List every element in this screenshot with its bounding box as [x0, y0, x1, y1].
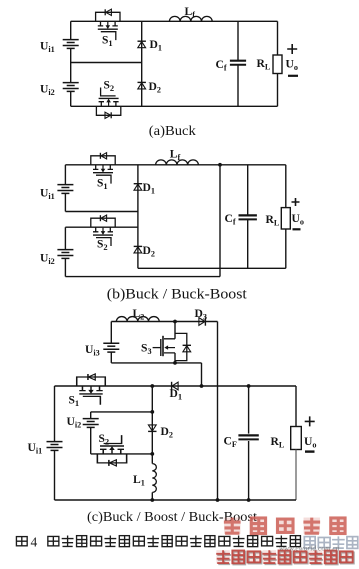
svg-text:(a)Buck: (a)Buck — [149, 124, 196, 139]
svg-text:(b)Buck / Buck-Boost: (b)Buck / Buck-Boost — [107, 286, 247, 302]
svg-text:www.eworld.com.cn: www.eworld.com.cn — [279, 544, 340, 553]
svg-text:4: 4 — [31, 534, 38, 549]
